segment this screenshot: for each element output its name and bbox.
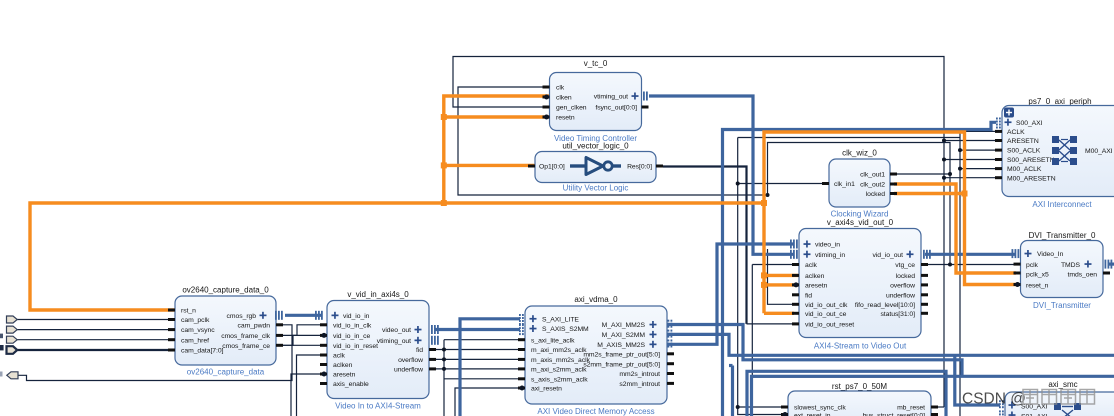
svg-text:vtiming_out: vtiming_out [594, 94, 628, 101]
svg-text:axis_enable: axis_enable [333, 381, 369, 388]
wire vid_io_in_reset [278, 344, 327, 346]
svg-text:cmos_rgb: cmos_rgb [227, 313, 257, 320]
wire vtg_ce / DVI pclk [924, 264, 1016, 266]
bus S00_AXI riser V722.5 [723, 122, 997, 416]
svg-text:vtiming_in: vtiming_in [815, 252, 845, 259]
icon crossbar axi_smc [1054, 403, 1081, 410]
wire m_axi_s2mm_aclk / underflow [429, 368, 525, 370]
bus S_AXI_LITE riser [460, 319, 520, 416]
svg-text:DVI_Transmitter_0: DVI_Transmitter_0 [1029, 231, 1096, 240]
svg-text:S00_AXI: S00_AXI [1016, 120, 1043, 127]
svg-text:S00_ACLK: S00_ACLK [1007, 148, 1041, 155]
svg-text:S_AXIS_S2MM: S_AXIS_S2MM [542, 326, 589, 333]
svg-text:cam_vsync: cam_vsync [181, 327, 215, 334]
svg-text:resetn: resetn [556, 115, 575, 122]
svg-text:ACLK: ACLK [1007, 129, 1025, 136]
wire vdma clock column V444 [443, 340, 445, 416]
svg-text:aclken: aclken [333, 362, 353, 369]
svg-text:AXI4-Stream to Video Out: AXI4-Stream to Video Out [814, 342, 907, 351]
wire s_axis_s2mm_aclk [444, 378, 525, 380]
wire m_axis_mm2s_aclk / overflow [429, 358, 525, 360]
svg-text:v_tc_0: v_tc_0 [584, 59, 608, 68]
wire 50M top rail to ACLK column [738, 137, 960, 139]
wire 50M clock net: clk_in1 riser [738, 138, 740, 415]
wire ext cam_pclk [17, 319, 175, 321]
svg-text:clk_wiz_0: clk_wiz_0 [842, 149, 877, 158]
svg-text:cam_data[7:0]: cam_data[7:0] [181, 348, 224, 355]
svg-text:underflow: underflow [394, 367, 423, 374]
svg-text:cam_pclk: cam_pclk [181, 317, 210, 324]
svg-text:vid_io_out_ce: vid_io_out_ce [805, 311, 847, 318]
block axi_smc (AXI SmartConnect) [999, 380, 1114, 416]
wire orange Op1 branch [444, 164, 535, 167]
node pixel junctions [766, 193, 770, 197]
svg-text:rst_n: rst_n [181, 308, 196, 315]
wire v_vid_in aresetn [291, 374, 327, 416]
bus M_AXIS_MM2S to video_in [667, 244, 794, 344]
svg-text:mm2s_introut: mm2s_introut [619, 371, 660, 378]
svg-text:s2mm_introut: s2mm_introut [619, 381, 660, 388]
svg-text:m_axis_mm2s_aclk: m_axis_mm2s_aclk [531, 357, 591, 364]
bus video_out to S_AXIS_S2MM [434, 328, 520, 331]
svg-text:clk_in1: clk_in1 [834, 181, 855, 188]
svg-text:vid_io_out_clk: vid_io_out_clk [805, 302, 848, 309]
svg-text:ov2640_capture_data: ov2640_capture_data [187, 368, 265, 377]
bus cmos_rgb to vid_io_in [285, 314, 321, 317]
block DVI_Transmitter_0 [1012, 231, 1113, 310]
external port cropped stubs at left edge [0, 334, 3, 339]
icon crossbar [1052, 136, 1077, 165]
bus M_AXI_MM2S [667, 325, 962, 377]
wire util Res to vid_io_out_reset [663, 167, 747, 324]
wire rst second row partial [740, 414, 788, 416]
bus M_AXI_S2MM [667, 334, 1114, 355]
svg-text:mb_reset: mb_reset [897, 405, 925, 412]
svg-text:aclken: aclken [805, 273, 825, 280]
wire orange aresetn branch [764, 283, 799, 286]
svg-text:video_out: video_out [382, 327, 411, 334]
svg-text:aclk: aclk [333, 353, 346, 360]
wire ext cam_data bus [17, 349, 175, 351]
svg-text:status[31:0]: status[31:0] [880, 311, 915, 318]
svg-text:s_axis_s2mm_aclk: s_axis_s2mm_aclk [531, 376, 588, 383]
wire ARESETN branch [944, 140, 1002, 142]
bus vtiming_out v_tc to vtiming_in [649, 96, 794, 254]
svg-text:pclk: pclk [1026, 262, 1039, 269]
block v_axi4s_vid_out_0 (AXI4-Stream to Video Out) [790, 218, 931, 351]
svg-text:M_AXI_S2MM: M_AXI_S2MM [602, 332, 646, 339]
wire S00_ACLK branch [960, 149, 1002, 151]
svg-text:reset_n: reset_n [1026, 283, 1049, 290]
wire orange aclken branch [764, 274, 799, 277]
external port cam_href [7, 336, 18, 343]
svg-text:fid: fid [805, 292, 812, 299]
wire cmos_frame_clk to vid_io_in_clk [276, 325, 327, 336]
svg-text:vtiming_out: vtiming_out [377, 338, 411, 345]
svg-text:fifo_read_level[10:0]: fifo_read_level[10:0] [855, 302, 915, 309]
wire orange riser V764 [764, 132, 1016, 313]
wire axi_resetn [455, 388, 525, 416]
block rst_ps7_0_50M (Processor System Reset) [781, 382, 938, 416]
wire pixel-clock net: v_tc clk [458, 87, 768, 195]
svg-text:mm2s_frame_ptr_out[5:0]: mm2s_frame_ptr_out[5:0] [583, 351, 660, 358]
svg-text:ov2640_capture_data_0: ov2640_capture_data_0 [182, 286, 269, 295]
svg-text:m_axi_mm2s_aclk: m_axi_mm2s_aclk [531, 347, 587, 354]
svg-text:axi_resetn: axi_resetn [531, 386, 562, 393]
svg-text:vid_io_out: vid_io_out [873, 252, 904, 259]
gate NOT symbol [570, 158, 621, 175]
svg-text:vid_io_out_reset: vid_io_out_reset [805, 322, 854, 329]
svg-text:slowest_sync_clk: slowest_sync_clk [794, 405, 846, 412]
svg-text:M00_AXI: M00_AXI [1085, 148, 1113, 155]
external port cam_vsync [7, 326, 18, 333]
svg-text:cam_pwdn: cam_pwdn [238, 322, 271, 329]
external port cam_data bus [7, 346, 18, 354]
wire vid_io_out_clk branch [768, 249, 795, 304]
svg-text:s_axi_lite_aclk: s_axi_lite_aclk [531, 337, 575, 344]
wire aclk net of v_axi4s (V752) [752, 265, 930, 378]
svg-text:v_axi4s_vid_out_0: v_axi4s_vid_out_0 [827, 218, 894, 227]
svg-text:pclk_x5: pclk_x5 [1026, 272, 1049, 279]
wire M00_ARESETN branch [944, 177, 1002, 179]
svg-text:fid: fid [416, 347, 423, 354]
bus lower rail H375.5 [752, 376, 1114, 416]
svg-text:v_vid_in_axi4s_0: v_vid_in_axi4s_0 [347, 290, 409, 299]
svg-text:M_AXIS_MM2S: M_AXIS_MM2S [597, 342, 645, 349]
svg-text:cmos_frame_clk: cmos_frame_clk [221, 333, 270, 340]
wire M00_ACLK branch [960, 168, 1002, 170]
bus S2MM jog [731, 366, 734, 416]
svg-text:CSDN @: CSDN @ [962, 391, 1026, 408]
svg-text:ARESETN: ARESETN [1007, 138, 1039, 145]
wire pixel-clock net: riser to H142.5 [768, 143, 951, 265]
svg-text:vtg_ce: vtg_ce [895, 262, 915, 269]
svg-text:Res[0:0]: Res[0:0] [627, 164, 652, 171]
svg-text:rst_ps7_0_50M: rst_ps7_0_50M [832, 382, 887, 391]
wire clk_in1 branch [738, 183, 829, 185]
wire orange resetn branch [444, 115, 550, 118]
svg-text:overflow: overflow [890, 283, 915, 290]
svg-text:axi_smc: axi_smc [1048, 380, 1077, 389]
wire orange column V443.8 [444, 96, 550, 203]
svg-text:M00_ACLK: M00_ACLK [1007, 166, 1042, 173]
svg-text:Video_In: Video_In [1037, 251, 1064, 258]
block axi_vdma_0 (AXI Video Direct Memory Access) [518, 295, 674, 416]
svg-text:vid_io_in_ce: vid_io_in_ce [333, 333, 370, 340]
wire reset-net top loop (gen_clken / V944) [453, 57, 944, 408]
svg-text:vid_io_in_clk: vid_io_in_clk [333, 322, 372, 329]
svg-text:locked: locked [866, 191, 886, 198]
wire m_axi_mm2s_aclk / fid [429, 349, 525, 351]
node vdma clock junctions [442, 348, 446, 352]
svg-text:ext_reset_in: ext_reset_in [794, 413, 831, 416]
svg-text:ps7_0_axi_periph: ps7_0_axi_periph [1028, 97, 1091, 106]
wire orange vid_io_out_ce branch [764, 312, 794, 315]
node orange junctions [441, 200, 447, 206]
wire clk_out1 into pixel net [894, 173, 950, 175]
block ov2640_capture_data_0 [168, 286, 283, 377]
svg-text:video_in: video_in [815, 242, 840, 249]
svg-text:fsync_out[0:0]: fsync_out[0:0] [595, 105, 637, 112]
node reset junctions [942, 139, 946, 143]
svg-text:AXI Video Direct Memory Access: AXI Video Direct Memory Access [537, 407, 654, 416]
svg-text:TMDS: TMDS [1061, 262, 1081, 269]
svg-text:tmds_oen: tmds_oen [1068, 272, 1098, 279]
wire orange clk_out2 to pclk_x5 [894, 184, 1016, 273]
wire v_vid_in aclk [297, 355, 328, 416]
svg-text:S_AXI_LITE: S_AXI_LITE [542, 316, 579, 323]
wire ext cam_vsync [17, 329, 175, 331]
wire ACLK branch [960, 130, 1002, 132]
svg-text:vid_io_in_reset: vid_io_in_reset [333, 343, 378, 350]
svg-text:M_AXI_MM2S: M_AXI_MM2S [602, 322, 646, 329]
watermark CSDN [962, 390, 1095, 408]
block v_tc_0 (Video Timing Controller) [543, 59, 649, 143]
wire mb_reset to reset net [931, 406, 944, 408]
svg-text:clk_out2: clk_out2 [860, 182, 885, 189]
svg-text:locked: locked [896, 273, 916, 280]
block v_vid_in_axi4s_0 (Video In to AXI4-Stream) [315, 290, 439, 411]
svg-text:cam_href: cam_href [181, 337, 209, 344]
svg-text:Utility Vector Logic: Utility Vector Logic [563, 184, 629, 193]
bus TMDS out [1108, 263, 1114, 266]
svg-text:S00_ARESETN: S00_ARESETN [1007, 157, 1055, 164]
svg-text:s2mm_frame_ptr_out[5:0]: s2mm_frame_ptr_out[5:0] [583, 361, 660, 368]
svg-text:overflow: overflow [398, 357, 423, 364]
external port cam_pwdn output [7, 372, 18, 379]
svg-text:DVI_Transmitter: DVI_Transmitter [1033, 301, 1091, 310]
svg-text:cmos_frame_ce: cmos_frame_ce [222, 343, 270, 350]
block util_vector_logic_0 (Utility Vector Logic) [528, 142, 663, 193]
wire s_axi_lite_aclk [444, 339, 525, 341]
svg-text:clk: clk [556, 85, 565, 92]
svg-text:aresetn: aresetn [333, 372, 356, 379]
svg-text:util_vector_logic_0: util_vector_logic_0 [562, 142, 629, 151]
svg-text:clken: clken [556, 95, 572, 102]
svg-text:vid_io_in: vid_io_in [343, 313, 370, 320]
wire orange locked to V964.5 [894, 192, 965, 195]
svg-text:axi_vdma_0: axi_vdma_0 [574, 295, 618, 304]
wire cam_pwdn to output port [18, 325, 292, 381]
bus smc riser [955, 355, 1000, 405]
svg-text:gen_clken: gen_clken [556, 105, 587, 112]
svg-text:AXI Interconnect: AXI Interconnect [1032, 200, 1092, 209]
svg-text:Op1[0:0]: Op1[0:0] [539, 164, 565, 171]
bus H372 rail [747, 371, 946, 416]
svg-text:Video In to AXI4-Stream: Video In to AXI4-Stream [335, 402, 421, 411]
block ps7_0_axi_periph (AXI Interconnect) [995, 97, 1114, 209]
bus vid_io_out to DVI Video_In [925, 253, 1016, 256]
wire orange main loop H203 [30, 203, 764, 310]
block clk_wiz_0 (Clocking Wizard) [822, 149, 897, 219]
svg-text:bus_struct_reset[0:0]: bus_struct_reset[0:0] [863, 413, 926, 416]
wire ext cam_href [17, 339, 175, 341]
svg-text:aresetn: aresetn [805, 283, 828, 290]
external port cam_pclk [7, 316, 18, 323]
svg-text:clk_out1: clk_out1 [860, 172, 885, 179]
svg-text:M00_ARESETN: M00_ARESETN [1007, 175, 1056, 182]
svg-text:underflow: underflow [886, 292, 915, 299]
svg-text:m_axi_s2mm_aclk: m_axi_s2mm_aclk [531, 367, 587, 374]
svg-text:aclk: aclk [805, 262, 818, 269]
wire S00_ARESETN branch [944, 159, 1002, 161]
wire cmos_frame_ce to vid_io_in_ce [276, 335, 327, 345]
